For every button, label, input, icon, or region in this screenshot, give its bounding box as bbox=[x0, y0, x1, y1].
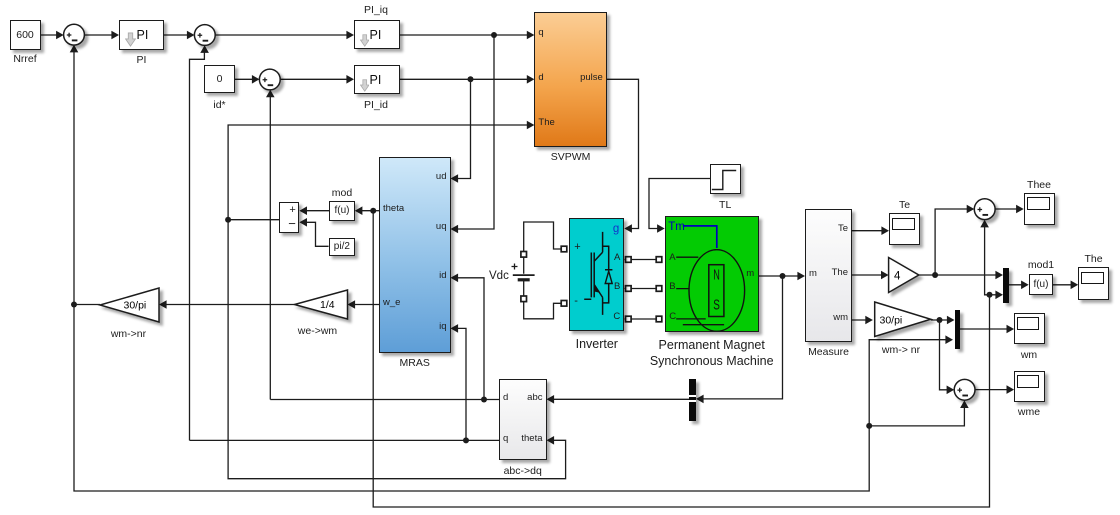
scope wm bbox=[1014, 313, 1045, 345]
subsystem SVPWM bbox=[534, 12, 606, 147]
wire PI_id to SVPWM d bbox=[400, 75, 535, 84]
PI_iq current controller bbox=[354, 20, 400, 49]
wire ud branch to MRAS ud bbox=[451, 79, 471, 183]
wire theta to abc-dq theta bbox=[228, 220, 565, 479]
label Synchronous Machine bbox=[632, 354, 792, 368]
gain K1 4 bbox=[889, 258, 919, 293]
wire Thee sum to scope bbox=[995, 205, 1024, 214]
wire pi/2 to sum minus bbox=[299, 218, 328, 246]
wire m branch to selector bbox=[696, 276, 783, 403]
subsystem abc to dq bbox=[499, 379, 547, 459]
sum S3 id error bbox=[259, 69, 280, 90]
wire theta down to mod1 and Thee sum bbox=[373, 211, 1003, 507]
label PI bbox=[112, 54, 172, 66]
wire mux1 to wm scope bbox=[960, 325, 1014, 334]
wire mod1 to The scope bbox=[1053, 281, 1078, 290]
wire gain 1/4 to gain 30/pi bbox=[159, 300, 295, 309]
label wm bbox=[999, 349, 1059, 361]
label The bbox=[1064, 253, 1120, 265]
wire Measure The to gain 4 bbox=[852, 271, 889, 280]
PI speed controller bbox=[119, 20, 164, 50]
wire Measure wm to gain 30/pi bbox=[852, 316, 873, 325]
wire theta to SVPWM The bbox=[228, 121, 534, 220]
label SVPWM bbox=[541, 151, 601, 163]
gain K3 30/pi estimated bbox=[100, 288, 159, 322]
wire nr est to wme sum minus bbox=[869, 400, 969, 426]
mux position signals bbox=[1003, 268, 1009, 303]
constant block 0 bbox=[204, 65, 235, 93]
mux wm signals bbox=[955, 310, 961, 349]
label PI_id bbox=[346, 99, 406, 111]
subsystem Measure bbox=[805, 209, 852, 343]
wire PMSM m to Measure bbox=[759, 272, 805, 281]
svg-text:30/pi: 30/pi bbox=[124, 300, 147, 312]
label wm to nr right bbox=[871, 344, 931, 356]
sum S1 speed error bbox=[64, 24, 85, 45]
sum block theta minus pi/2 bbox=[279, 202, 299, 233]
wire mux2 to mod1 bbox=[1009, 281, 1029, 290]
label wm to nr left bbox=[99, 328, 159, 340]
wire 600 to sum1 bbox=[41, 31, 64, 40]
wire nr to wme sum plus bbox=[940, 320, 955, 394]
svg-text:N: N bbox=[713, 268, 720, 284]
wire TL to PMSM Tm bbox=[649, 179, 710, 233]
wire SVPWM pulse to Inverter g bbox=[607, 79, 639, 233]
wire q branch to MRAS iq bbox=[451, 324, 467, 440]
battery Vdc symbol bbox=[512, 264, 535, 280]
wire abc-dq q out bbox=[190, 437, 500, 443]
wire id feedback to sum3 bbox=[266, 90, 275, 400]
function block f(u) mod bbox=[329, 201, 355, 221]
wire sum1 to PI bbox=[84, 31, 119, 40]
scope wme bbox=[1014, 371, 1045, 403]
label PI_iq bbox=[346, 4, 406, 16]
wire inverter A to machine A bbox=[624, 257, 662, 263]
wire nr est bottom run bbox=[74, 305, 953, 492]
PI_id current controller bbox=[354, 65, 400, 94]
permanent magnet synchronous machine block bbox=[665, 216, 759, 332]
subsystem MRAS observer bbox=[379, 157, 451, 353]
label Inverter bbox=[567, 337, 627, 351]
wire d branch to MRAS id bbox=[451, 274, 485, 400]
svg-text:30/pi: 30/pi bbox=[880, 315, 903, 327]
gain K4 1/4 we to wm bbox=[295, 290, 348, 319]
label MRAS bbox=[385, 357, 445, 369]
label abc-dq bbox=[493, 465, 553, 477]
inverter block bbox=[569, 218, 624, 332]
wire sum2 to PI_iq bbox=[215, 31, 354, 40]
constant block 600 bbox=[10, 20, 41, 50]
label TL bbox=[695, 199, 755, 211]
sum S5 speed compare bbox=[954, 379, 975, 400]
wire f(u) mod to sum bbox=[299, 206, 329, 215]
label Nrref bbox=[0, 53, 55, 65]
wire iq* branch to MRAS uq bbox=[451, 35, 495, 233]
wire id* to sum3 bbox=[235, 75, 260, 84]
constant pi/2 bbox=[329, 238, 356, 256]
wire nr feedback to sum1 bbox=[70, 45, 79, 305]
label mod bbox=[312, 187, 372, 199]
sum S4 position error bbox=[974, 199, 995, 220]
label Thee bbox=[1009, 179, 1069, 191]
wire MRAS w_e to gain 1/4 bbox=[348, 300, 380, 309]
label id* bbox=[190, 99, 250, 111]
scope Te bbox=[889, 213, 920, 245]
wire selector to abc-dq abc bbox=[547, 395, 690, 404]
wire PI_iq to SVPWM q bbox=[400, 31, 535, 40]
svg-text:S: S bbox=[713, 298, 720, 314]
wire gain 30/pi nr out bbox=[931, 316, 955, 325]
wire inverter C to machine C bbox=[624, 316, 662, 322]
label Te bbox=[875, 199, 935, 211]
step source TL bbox=[710, 164, 741, 194]
label Vdc bbox=[488, 270, 490, 282]
svg-text:1/4: 1/4 bbox=[320, 299, 335, 311]
wire The branch to Thee sum bbox=[935, 205, 974, 275]
scope The bbox=[1078, 267, 1109, 300]
wire battery minus to inverter bbox=[521, 281, 567, 319]
wire MRAS theta out bbox=[355, 206, 379, 215]
wire mod sum out theta node bbox=[225, 217, 279, 223]
wire inverter B to machine B bbox=[624, 286, 662, 292]
wire iq feedback to sum2 bbox=[190, 45, 209, 440]
wire PI to sum2 bbox=[164, 31, 195, 40]
wire Measure Te to scope bbox=[852, 226, 889, 235]
gain K2 30/pi wm to nr bbox=[875, 302, 931, 337]
label Measure bbox=[799, 346, 859, 358]
function block f(u) mod1 bbox=[1029, 274, 1054, 295]
wire sum3 to PI_id bbox=[280, 75, 354, 84]
scope Thee bbox=[1024, 193, 1055, 225]
bus selector iabc bbox=[689, 379, 696, 422]
sum S2 iq error bbox=[194, 25, 215, 46]
label wme bbox=[999, 406, 1059, 418]
wire gain 4 out bbox=[919, 271, 1003, 280]
svg-text:4: 4 bbox=[894, 271, 901, 283]
wire abc-dq d out bbox=[270, 397, 499, 403]
wire wme sum to scope bbox=[975, 385, 1014, 394]
wire gain 30/pi out node bbox=[71, 302, 100, 308]
wire battery plus to inverter bbox=[521, 222, 567, 274]
label Permanent Magnet bbox=[632, 338, 792, 352]
label we to wm bbox=[288, 325, 348, 337]
label mod1 bbox=[1011, 259, 1071, 271]
